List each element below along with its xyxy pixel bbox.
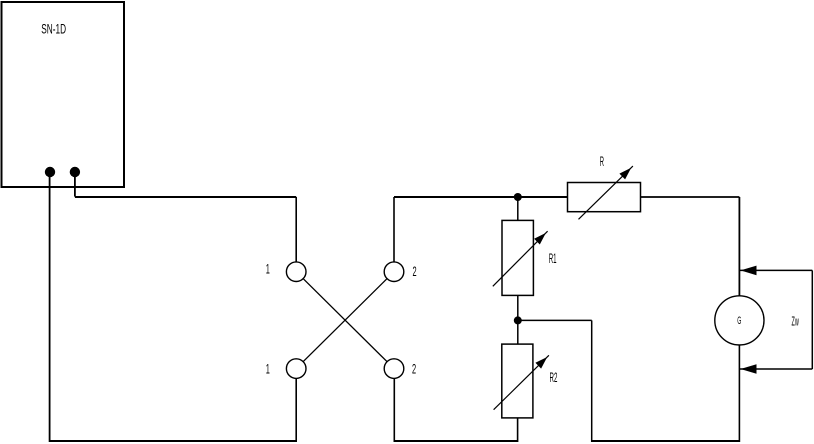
wire right terminal down [74, 172, 76, 197]
label R1 [549, 251, 557, 267]
Zw bracket right line [811, 270, 813, 369]
resistor R1 adjust arrow [493, 231, 548, 286]
label SN-1D [41, 22, 66, 37]
wire switch contact 2 top up [393, 197, 395, 262]
svg-text:R1: R1 [549, 251, 557, 267]
wire right vertical upper [738, 197, 740, 296]
label 1 bottom [266, 362, 270, 377]
terminal dot left [45, 167, 55, 177]
svg-text:G: G [737, 314, 741, 327]
galvanometer G [715, 296, 764, 345]
source box SN-1D [2, 2, 125, 187]
label G [737, 314, 741, 327]
junction node top [514, 193, 522, 201]
label Zw [792, 315, 800, 329]
resistor R body [568, 183, 641, 212]
switch contact 2 bottom [384, 359, 404, 379]
wire down to switch contact 1 top [295, 197, 297, 262]
wire left terminal down [49, 172, 51, 442]
svg-text:Zw: Zw [792, 315, 800, 329]
wire switch contact 2 bottom down [393, 378, 395, 442]
label 2 bottom [412, 362, 416, 377]
svg-text:R2: R2 [550, 370, 558, 386]
resistor R adjust arrow [579, 166, 633, 219]
crossover wire 2top to 1bottom [303, 279, 387, 362]
bottom bus wire middle [394, 440, 518, 442]
wire switch contact 1 bottom down [295, 378, 297, 442]
wire R to right vertical [641, 196, 740, 198]
wire top left horizontal [75, 196, 296, 198]
crossover wire 1top to 2bottom [303, 279, 387, 362]
wire R1 bottom to R2 top [517, 295, 519, 344]
Zw bracket top line [739, 269, 812, 271]
bottom bus wire right [592, 440, 740, 442]
wire middle vertical down [591, 320, 593, 442]
wire R2 bottom down [517, 418, 519, 442]
svg-text:1: 1 [266, 262, 270, 277]
wire junction middle to right [518, 319, 592, 321]
label 2 top [413, 265, 417, 280]
Zw arrow bottom [741, 364, 757, 374]
svg-text:R: R [600, 154, 604, 170]
svg-text:1: 1 [266, 362, 270, 377]
bottom bus wire left [49, 440, 296, 442]
resistor R2 adjust arrow [494, 355, 549, 409]
label 1 top [266, 262, 270, 277]
label R2 [550, 370, 558, 386]
wire top middle horizontal to R [394, 196, 568, 198]
wire junction to R1 [517, 197, 519, 220]
junction node middle [514, 316, 522, 324]
switch contact 1 top [286, 262, 306, 282]
switch contact 1 bottom [286, 359, 306, 379]
svg-text:SN-1D: SN-1D [41, 22, 66, 37]
svg-text:2: 2 [413, 265, 417, 280]
Zw arrow top [741, 266, 757, 276]
Zw bracket bottom line [739, 368, 812, 370]
resistor R1 body [502, 220, 533, 295]
terminal dot right [70, 167, 80, 177]
wire right vertical lower [738, 345, 740, 442]
label R [600, 154, 604, 170]
switch contact 2 top [384, 262, 404, 282]
svg-text:2: 2 [412, 362, 416, 377]
resistor R2 body [502, 344, 533, 418]
